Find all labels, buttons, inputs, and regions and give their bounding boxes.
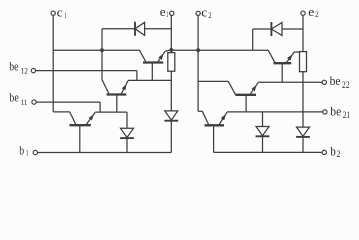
svg-text:2: 2 — [208, 10, 211, 20]
svg-text:1: 1 — [64, 10, 66, 20]
svg-text:e: e — [160, 4, 166, 19]
svg-text:1: 1 — [26, 148, 29, 158]
svg-text:be: be — [330, 103, 341, 118]
svg-text:c: c — [57, 4, 63, 19]
svg-text:e: e — [308, 4, 314, 19]
svg-text:11: 11 — [21, 97, 28, 107]
svg-text:22: 22 — [342, 80, 350, 90]
svg-text:be: be — [9, 58, 18, 73]
svg-text:be: be — [9, 90, 18, 105]
svg-text:1: 1 — [166, 9, 168, 19]
svg-text:2: 2 — [315, 9, 318, 19]
svg-text:be: be — [330, 73, 341, 88]
svg-text:c: c — [201, 4, 207, 19]
svg-text:b: b — [19, 143, 24, 158]
svg-text:2: 2 — [337, 149, 341, 159]
svg-text:21: 21 — [343, 110, 350, 120]
svg-text:12: 12 — [21, 66, 28, 76]
svg-text:b: b — [330, 144, 336, 159]
